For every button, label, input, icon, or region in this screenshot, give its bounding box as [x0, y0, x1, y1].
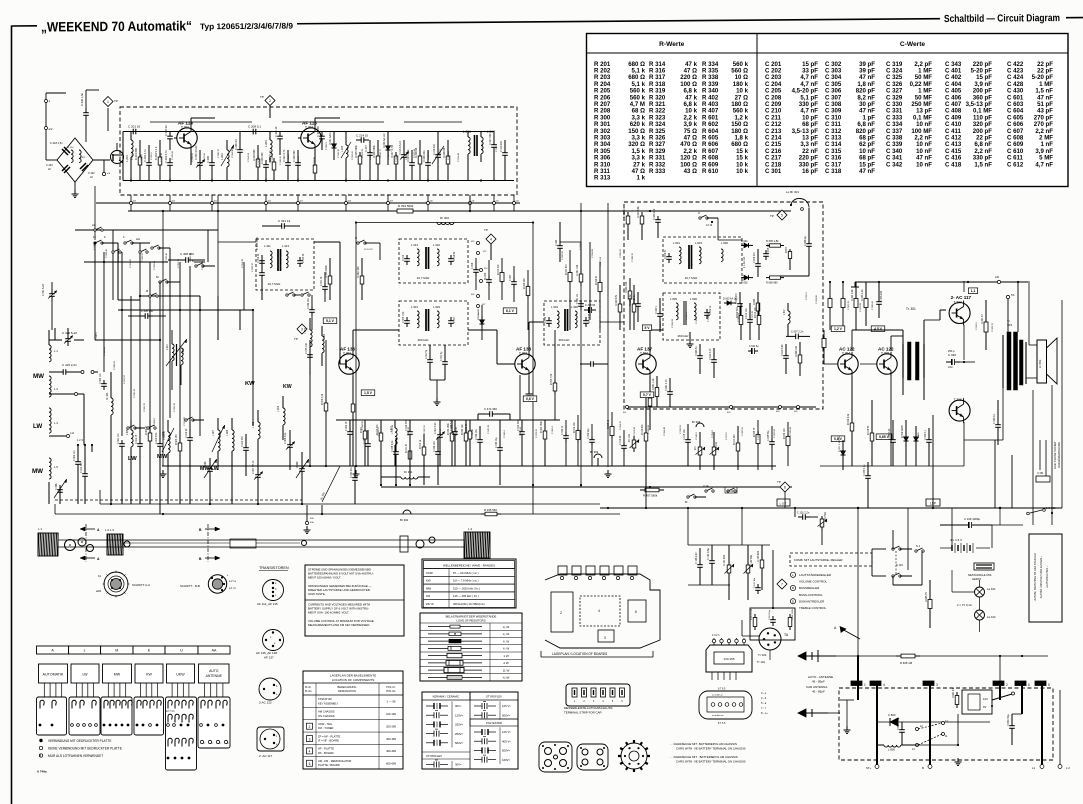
- svg-text:R 202 5,1 k: R 202 5,1 k: [154, 146, 158, 160]
- junction dots switch matrix: [94, 242, 96, 244]
- resistor R320 47k: [619, 300, 621, 304]
- svg-text:L: L: [84, 649, 86, 653]
- svg-text:¹⁄₂ W: ¹⁄₂ W: [503, 647, 509, 651]
- resistor R310 27k: [380, 430, 382, 433]
- capacitor C275 decouple: [309, 350, 311, 355]
- capacitor C334 10n: [437, 448, 439, 452]
- test point diamond TP3: [297, 324, 307, 334]
- svg-text:R 331 47: R 331 47: [981, 314, 984, 324]
- vertical wire columns switch matrix: [94, 243, 96, 340]
- mixer switch contacts U: [699, 217, 701, 219]
- diodes D302 row: [842, 448, 844, 458]
- svg-text:A 749a: A 749a: [37, 770, 47, 774]
- resistor R103 620: [761, 556, 763, 560]
- driver stage resistors: [855, 296, 857, 299]
- svg-text:L 311: L 311: [264, 244, 271, 248]
- capacitor C605 1,70: [765, 250, 767, 254]
- long rail y514: [55, 513, 620, 515]
- svg-text:R 301 620k: R 301 620k: [325, 264, 328, 278]
- resistor R317 220: [737, 440, 739, 443]
- resistor R322 10k column: [627, 212, 629, 216]
- svg-text:C 110 10μ: C 110 10μ: [769, 609, 771, 620]
- switch auto antenne extra dots: [200, 740, 203, 743]
- svg-text:VOLUME CONTROL: VOLUME CONTROL: [799, 580, 828, 584]
- svg-text:200-299: 200-299: [386, 724, 396, 728]
- svg-text:L 3: L 3: [54, 387, 58, 391]
- svg-text:C 352 20: C 352 20: [388, 150, 390, 160]
- svg-text:C 275 10n: C 275 10n: [305, 342, 308, 354]
- resistor R407 560k: [640, 489, 645, 491]
- svg-text:8 7 6 5: 8 7 6 5: [718, 722, 726, 725]
- svg-text:C 424 5-20: C 424 5-20: [451, 419, 453, 431]
- wire speaker top: [1028, 281, 1030, 345]
- svg-text:TREBLE CONTROL: TREBLE CONTROL: [799, 606, 827, 610]
- wire AF114 collector: [190, 118, 192, 126]
- svg-text:L 607: L 607: [784, 309, 786, 315]
- resistor R605 75 power: [929, 596, 931, 600]
- coil L405 MW-LW: [218, 430, 220, 451]
- hop Br303: [594, 454, 602, 458]
- wire horizontal y230 left: [75, 229, 218, 231]
- svg-text:R 203 680: R 203 680: [253, 149, 256, 161]
- dial cord mid tensioner: [230, 539, 256, 548]
- svg-text:R 317 220: R 317 220: [734, 434, 736, 445]
- svg-text:45 - 85pF: 45 - 85pF: [812, 690, 825, 694]
- svg-text:R 207 4,7M: R 207 4,7M: [391, 145, 394, 158]
- boxed label LSP: [926, 499, 940, 506]
- svg-text:R-Werte: R-Werte: [659, 41, 684, 48]
- svg-text:TP: TP: [260, 95, 264, 99]
- svg-text:C 210 22n: C 210 22n: [500, 140, 503, 152]
- capacitor C206: [211, 158, 213, 163]
- capacitor C212 68: [321, 132, 323, 137]
- svg-text:U: U: [180, 649, 183, 653]
- svg-text:C 360 64: C 360 64: [520, 426, 522, 436]
- lageplan boards label: [540, 651, 542, 657]
- capacitor filler C413: [159, 440, 161, 444]
- svg-text:C 607 2,2n: C 607 2,2n: [791, 331, 804, 334]
- svg-text:C-Werte: C-Werte: [900, 41, 925, 48]
- svg-text:CARS WITH ·VE BATTERY TERMI: CARS WITH ·VE BATTERY TERMINAL ON CHASSI…: [676, 747, 746, 751]
- svg-text:L 402: L 402: [183, 348, 185, 354]
- capacitor C606 270: [757, 259, 759, 264]
- switch K contact group a: [94, 242, 96, 244]
- svg-text:T 302: T 302: [519, 352, 527, 356]
- test point diamond TP5: [780, 482, 790, 492]
- svg-text:120: 120: [995, 276, 1000, 279]
- wire am mixer: [117, 243, 119, 300]
- capacitor C406 360 mid: [140, 315, 145, 317]
- KW trimmer C404: [289, 440, 291, 445]
- svg-text:125V≈: 125V≈: [455, 713, 464, 717]
- capacitor C612 4,7n: [713, 356, 715, 360]
- svg-text:R 605 75: R 605 75: [925, 592, 928, 602]
- capacitor C342 10n below B1: [311, 306, 313, 310]
- wire T306 bottom to rail: [963, 440, 965, 466]
- svg-text:C 374 68: C 374 68: [634, 426, 636, 436]
- svg-text:C 408 360: C 408 360: [180, 252, 194, 256]
- antenna connector stubs: [45, 93, 47, 137]
- svg-text:C 338 12: C 338 12: [272, 152, 274, 162]
- transistor AF137 T601: [636, 354, 656, 374]
- svg-text:MUR ALS LÖTFAHNEN VERWENDE: MUR ALS LÖTFAHNEN VERWENDET: [48, 754, 103, 758]
- svg-text:AA: AA: [212, 649, 217, 653]
- svg-text:La 101: La 101: [987, 587, 996, 591]
- svg-text:C 612: C 612: [1007, 161, 1024, 168]
- wire T305 emitter down: [890, 375, 892, 466]
- switch group b: [124, 242, 126, 244]
- capacitor C333 0,1MF: [997, 420, 999, 425]
- svg-text:IF = NF - BOARD: IF = NF - BOARD: [318, 738, 339, 742]
- svg-text:5: 5: [1048, 683, 1050, 687]
- svg-text:2: 2: [269, 99, 271, 103]
- capacitor C219 22n: [504, 148, 506, 153]
- wire vertical x163: [162, 211, 164, 466]
- legend bullet 2: [39, 746, 42, 749]
- capacitor C410 320 bottom: [84, 470, 86, 474]
- coil L203 variable: [227, 150, 229, 167]
- wire vertical x581: [580, 203, 582, 487]
- mixer switch contacts U 13 14: [357, 242, 359, 244]
- bus wire y222: [356, 222, 533, 224]
- contact plate gear: [621, 743, 647, 769]
- capacitor C800 0,1u: [901, 726, 903, 730]
- hop Br302: [403, 510, 411, 514]
- switch S1 upper: [892, 548, 894, 550]
- svg-text:R 206 560k: R 206 560k: [373, 144, 376, 158]
- svg-text:S 1: S 1: [916, 544, 921, 548]
- svg-text:C 421 110: C 421 110: [118, 433, 120, 444]
- svg-text:2: 2: [1006, 683, 1008, 687]
- svg-text:C 603 51: C 603 51: [695, 346, 698, 356]
- transistor AF115 T202: [301, 128, 321, 148]
- diode D602: [741, 277, 744, 279]
- svg-text:C 212 68: C 212 68: [316, 126, 320, 137]
- svg-text:C 964: C 964: [485, 272, 487, 279]
- svg-text:R 610: R 610: [702, 168, 719, 175]
- svg-text:2-AC 122: 2-AC 122: [259, 701, 272, 705]
- svg-text:R 319 6,8k: R 319 6,8k: [629, 294, 632, 306]
- svg-text:C 308 35: C 308 35: [141, 153, 143, 163]
- svg-text:87 — 104 MHz ( mc ): 87 — 104 MHz ( mc ): [453, 571, 479, 575]
- svg-text:L 411: L 411: [80, 157, 86, 159]
- svg-text:L 401: L 401: [304, 327, 307, 334]
- svg-text:C 348 32: C 348 32: [408, 426, 410, 436]
- svg-text:C 205 4,5-20: C 205 4,5-20: [195, 145, 198, 160]
- svg-text:1 S 101: 1 S 101: [1046, 506, 1056, 510]
- test point diamond TP6: [777, 210, 787, 220]
- svg-text:C 362 0: C 362 0: [396, 154, 398, 162]
- svg-text:Tr. 301: Tr. 301: [906, 307, 916, 311]
- svg-text:AA: AA: [136, 237, 140, 241]
- svg-text:C 298: C 298: [204, 461, 207, 468]
- svg-text:LAUTSTÄRKEREGLER: LAUTSTÄRKEREGLER: [799, 573, 832, 577]
- dial cord section line B: [207, 524, 209, 562]
- svg-text:C 401 5-20: C 401 5-20: [435, 422, 437, 434]
- svg-text:AF 136_AF 138: AF 136_AF 138: [256, 651, 277, 655]
- svg-text:6: 6: [1028, 683, 1030, 687]
- svg-text:C 367 30: C 367 30: [298, 155, 300, 165]
- capacitor C610 10n: [749, 316, 751, 320]
- wire vertical x608: [607, 203, 609, 467]
- capacitor C341 47n: [354, 474, 356, 478]
- svg-text:C 310 0: C 310 0: [686, 312, 688, 320]
- svg-text:5,8 — 7,6 MHz ( mc ): 5,8 — 7,6 MHz ( mc ): [453, 579, 479, 583]
- resistor R205 560k: [359, 152, 361, 156]
- svg-text:TASTATUR: TASTATUR: [318, 697, 332, 701]
- svg-text:C 340 0: C 340 0: [696, 432, 698, 440]
- switch contact row3: [149, 295, 151, 297]
- IF transformer box 10,7MHz L311 L313: [256, 239, 314, 290]
- svg-text:1 W: 1 W: [503, 654, 509, 658]
- test point diamond TP7: [777, 579, 787, 589]
- svg-text:C 415 2,2n: C 415 2,2n: [62, 363, 77, 367]
- svg-text:C 394 88: C 394 88: [232, 148, 234, 158]
- svg-text:R 2 50k: R 2 50k: [825, 511, 827, 520]
- capacitor C607 2,2n: [791, 335, 796, 337]
- table Wellenbereiche: [422, 559, 516, 608]
- wire x1062 top: [963, 299, 965, 301]
- diode D603 AA112: [724, 302, 727, 304]
- trimmer C407 3,5-13: [257, 470, 259, 475]
- svg-text:133-165: 133-165: [723, 657, 734, 661]
- svg-text:30V≈: 30V≈: [455, 763, 462, 767]
- capacitor C301 16: [324, 283, 326, 287]
- svg-text:L 314: L 314: [411, 243, 418, 247]
- coil Dr301: [401, 477, 418, 479]
- svg-text:C 333 0,1μ: C 333 0,1μ: [864, 464, 866, 476]
- output bottom components row: [851, 420, 853, 423]
- svg-text:R 314 47k: R 314 47k: [642, 424, 644, 435]
- bottom rail y487: [381, 486, 792, 488]
- svg-text:PL.Nr.: PL.Nr.: [305, 686, 312, 689]
- svg-text:L 404: L 404: [277, 405, 280, 412]
- svg-text:Br 303: Br 303: [590, 450, 599, 454]
- svg-text:D 201 AA112: D 201 AA112: [329, 130, 332, 145]
- svg-text:R 201 680: R 201 680: [134, 147, 138, 160]
- legend bullet 1: [39, 739, 42, 742]
- relay dashed box: [839, 688, 1053, 760]
- capacitor C217 220: [493, 140, 495, 145]
- capacitor filler C420: [103, 380, 105, 384]
- svg-text:C 340 0: C 340 0: [96, 332, 98, 340]
- switch S101 lower: [892, 575, 894, 577]
- long rail y504: [100, 503, 600, 505]
- voltage callout AF137 5V: [642, 325, 651, 331]
- wire AF137 emitter: [649, 376, 651, 395]
- svg-text:UKW: UKW: [176, 673, 185, 677]
- svg-text:C 301 16: C 301 16: [576, 294, 579, 304]
- svg-text:C 370 0: C 370 0: [916, 342, 918, 350]
- svg-text:600-699: 600-699: [386, 761, 396, 765]
- arrow B top: [205, 528, 215, 530]
- capacitor C611 5u: [748, 350, 752, 352]
- resistor R321 6,8k column: [641, 212, 643, 216]
- svg-text:C 610 3,9n: C 610 3,9n: [781, 344, 784, 356]
- svg-text:C 325 50μ: C 325 50μ: [768, 430, 770, 441]
- chassis boards drawing: [545, 574, 660, 648]
- svg-text:4: 4: [883, 683, 885, 687]
- svg-text:R 312 10k: R 312 10k: [574, 422, 576, 433]
- svg-text:C 354 8: C 354 8: [712, 430, 714, 438]
- svg-text:4: 4: [309, 750, 311, 754]
- svg-text:T 304: T 304: [842, 352, 850, 356]
- resistor bias network AC122: [829, 296, 831, 299]
- svg-text:AUTO - ANTENNE: AUTO - ANTENNE: [808, 675, 833, 679]
- resistor R604 vertical: [757, 300, 759, 303]
- svg-text:L 408: L 408: [127, 429, 129, 435]
- svg-text:C 307: C 307: [454, 316, 456, 323]
- svg-text:C 329 90μ: C 329 90μ: [588, 428, 590, 439]
- svg-text:C 312: C 312: [545, 316, 547, 323]
- svg-text:C 343 220: C 343 220: [880, 290, 883, 302]
- svg-text:7 - f: 7 - f: [761, 706, 766, 710]
- diode D201 AA112: [333, 140, 335, 152]
- svg-text:Lo Br 301: Lo Br 301: [786, 190, 799, 194]
- svg-text:145 — 265 kHz ( Kc ): 145 — 265 kHz ( Kc ): [453, 594, 479, 598]
- svg-text:TP: TP: [777, 480, 781, 484]
- resistor R334 560k on bus: [392, 210, 397, 212]
- svg-text:L 205: L 205: [341, 145, 344, 152]
- svg-text:R 325 75: R 325 75: [754, 427, 756, 437]
- svg-text:T 306: T 306: [954, 398, 962, 402]
- wire left rail to bottom: [54, 504, 56, 514]
- arrow B bottom: [205, 557, 215, 559]
- svg-text:TERMINAL STRIP FOR CAR: TERMINAL STRIP FOR CAR: [564, 711, 602, 715]
- svg-text:C 800: C 800: [888, 713, 896, 717]
- svg-text:6V: 6V: [983, 705, 987, 709]
- svg-text:15 14 13: 15 14 13: [364, 249, 373, 251]
- svg-text:AUTO: AUTO: [209, 669, 219, 673]
- dial cord spools L2 L3: [107, 534, 123, 555]
- wires volume area: [688, 544, 770, 546]
- svg-text:C 370 0: C 370 0: [726, 432, 728, 440]
- svg-text:Br 304: Br 304: [692, 420, 701, 424]
- svg-text:UKW-TASTE,: UKW-TASTE,: [308, 592, 326, 596]
- tone network extra caps x560-625: [565, 432, 567, 436]
- capacitor C218 330: [297, 158, 299, 163]
- transistor AC122 T304: [838, 354, 858, 374]
- wire mixer to IF: [717, 218, 719, 240]
- svg-text:R 110 102k: R 110 102k: [751, 608, 753, 620]
- capacitor C315 10n: [687, 436, 689, 440]
- switch contact blocks: [37, 697, 67, 735]
- IF transformer box 460kHz L301 L303: [399, 301, 468, 345]
- svg-text:L 5: L 5: [54, 465, 58, 469]
- svg-text:C 330: C 330: [948, 353, 956, 357]
- coil pair L401 L402 mid: [172, 344, 174, 361]
- svg-text:C 318: C 318: [825, 168, 842, 175]
- wire left column to rail: [54, 328, 56, 340]
- svg-text:C 354 68: C 354 68: [592, 248, 594, 258]
- svg-text:C 358 52: C 358 52: [192, 152, 194, 162]
- resistor R314 47k lower: [645, 430, 647, 433]
- svg-text:C 402 15: C 402 15: [346, 421, 348, 431]
- resistor R313 1k: [423, 444, 425, 447]
- capacitor filler C419: [139, 440, 141, 444]
- dial cord lines: [58, 539, 464, 541]
- caps under B3 box: [429, 356, 431, 360]
- svg-text:C 342 10n: C 342 10n: [476, 429, 478, 440]
- svg-text:3: 3: [604, 636, 606, 640]
- svg-text:R 607: R 607: [786, 246, 788, 253]
- dial cord right guides: [400, 536, 408, 552]
- svg-text:43 Ω: 43 Ω: [684, 168, 697, 175]
- svg-text:KW: KW: [426, 579, 431, 583]
- switch block button boxes: [39, 664, 68, 683]
- svg-text:R 320 47k: R 320 47k: [615, 294, 618, 306]
- svg-text:R 311 47: R 311 47: [406, 443, 408, 453]
- svg-text:C 474 360: C 474 360: [484, 407, 497, 411]
- svg-text:R 321 6,8k: R 321 6,8k: [637, 206, 640, 218]
- svg-text:6,1 V: 6,1 V: [506, 309, 515, 313]
- svg-text:C 327 1: C 327 1: [655, 305, 658, 314]
- svg-text:„WEEKEND 70 Automatik“: „WEEKEND 70 Automatik“: [41, 18, 192, 34]
- switch contact dots row: [39, 724, 42, 727]
- svg-text:OHRHÖRERBUCHSE: OHRHÖRERBUCHSE: [1057, 442, 1061, 468]
- svg-text:an mΩm an: an mΩm an: [712, 715, 724, 717]
- TA input circle: [759, 628, 781, 650]
- svg-text:U 151: U 151: [1037, 472, 1044, 475]
- svg-text:1,1: 1,1: [971, 289, 976, 293]
- svg-text:R 606 1M: R 606 1M: [900, 661, 913, 665]
- svg-text:T 201: T 201: [181, 126, 189, 130]
- svg-text:C 382 92: C 382 92: [620, 248, 622, 258]
- table R-Werte C-Werte frame: [587, 34, 1069, 187]
- svg-text:WELLENBEREICHE / WAVE - RAN: WELLENBEREICHE / WAVE - RANGES: [443, 564, 495, 568]
- Netzanschluss box: [974, 563, 994, 570]
- IF transformer box 460kHz L304 L306: [544, 301, 600, 345]
- wire LW tap: [49, 435, 66, 437]
- svg-text:an mΩm ω: an mΩm ω: [712, 695, 723, 697]
- capacitor C104 0,5u: [711, 556, 713, 561]
- capacitor C301 16: [580, 300, 582, 304]
- wire under B3: [430, 379, 445, 381]
- svg-text:L G T: L G T: [780, 502, 787, 506]
- table Belastbarkeit load of resistors: [420, 613, 522, 681]
- svg-text:T 301: T 301: [343, 352, 351, 356]
- wire S1 area: [892, 530, 894, 549]
- IF transformer box 10,7MHz L314 L316: [399, 239, 468, 283]
- junction dots bottom left rail: [110, 503, 112, 505]
- ground demod: [689, 340, 691, 344]
- svg-text:10V-: 10V-: [948, 365, 953, 369]
- svg-text:MEASUREMENTS AND FM KEY DEPRE: MEASUREMENTS AND FM KEY DEPRESSED.: [308, 623, 370, 627]
- svg-text:L 204: L 204: [264, 140, 268, 147]
- svg-text:2 × AA 112: 2 × AA 112: [743, 256, 746, 268]
- svg-text:C 364 48: C 364 48: [104, 346, 106, 356]
- svg-text:C 314 88: C 314 88: [184, 416, 186, 426]
- svg-text:C 352 0: C 352 0: [496, 144, 498, 152]
- capacitor C601 4,7n: [669, 388, 671, 392]
- capacitor C106 2,2n: [699, 560, 701, 565]
- svg-text:C 354 4: C 354 4: [288, 154, 290, 162]
- svg-text:M: M: [146, 289, 148, 293]
- svg-text:Lt 15Ω: Lt 15Ω: [1038, 360, 1042, 368]
- svg-text:Dr 302: Dr 302: [440, 216, 449, 220]
- svg-text:L 401: L 401: [167, 344, 169, 350]
- svg-text:2: 2: [560, 611, 562, 615]
- capacitor C430 1,5n: [85, 90, 87, 108]
- svg-text:a 2 / a: a 2 / a: [229, 580, 237, 583]
- svg-text:C 314 62: C 314 62: [454, 251, 456, 261]
- svg-text:La 102: La 102: [987, 615, 996, 619]
- svg-text:C 318 52: C 318 52: [378, 426, 380, 436]
- svg-text:C 324 28: C 324 28: [362, 148, 364, 158]
- svg-text:400 V≈: 400 V≈: [502, 739, 511, 743]
- capacitor C601 1n: [637, 300, 639, 304]
- wires lamps: [979, 580, 981, 587]
